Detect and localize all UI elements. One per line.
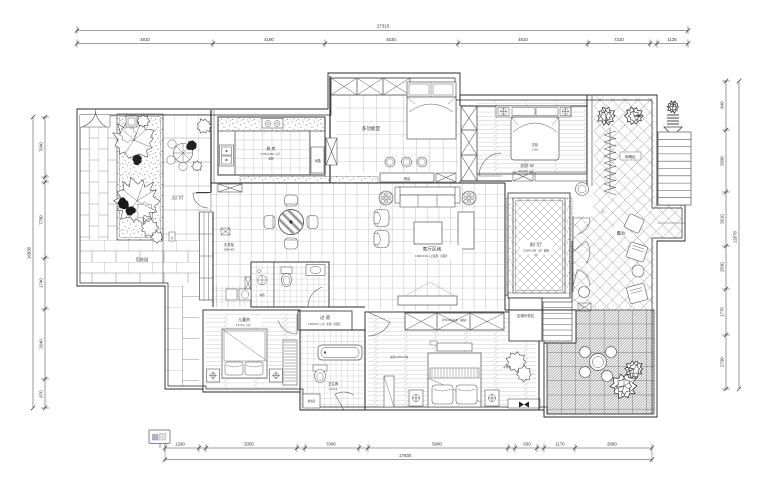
- armchair top-left: [374, 210, 389, 227]
- svg-text:2680: 2680: [607, 442, 617, 447]
- master nightstand right: [485, 390, 499, 406]
- svg-text:2.2×2.3: 2.2×2.3: [329, 388, 338, 391]
- terrace planter pot: [576, 183, 589, 196]
- garden paved path tiles: [163, 114, 211, 212]
- svg-text:930: 930: [523, 442, 531, 447]
- master bedroom wood floor: [368, 315, 536, 407]
- terrace stool round: [579, 287, 590, 298]
- svg-text:2700×600衣柜（搭配）: 2700×600衣柜（搭配）: [442, 318, 468, 322]
- svg-text:3.9M×XXG.L上投影（搭配）: 3.9M×XXG.L上投影（搭配）: [415, 254, 449, 258]
- garden chairs: [168, 140, 176, 148]
- svg-text:玄关柜: 玄关柜: [224, 242, 235, 247]
- hatch box terrace: [578, 303, 591, 311]
- entry speckle band left: [507, 198, 514, 293]
- coffee table: [414, 222, 442, 244]
- back door arc: [193, 193, 208, 208]
- leisure chairs: [580, 347, 591, 358]
- top overall dimension line 27315: [75, 24, 690, 35]
- svg-text:冰箱: 冰箱: [314, 158, 321, 163]
- ceiling fan left: [379, 191, 393, 205]
- legend stamp box: [149, 430, 170, 448]
- svg-text:露台: 露台: [617, 230, 625, 237]
- svg-text:过 道: 过 道: [320, 314, 331, 321]
- master bathroom floor tiles: [300, 330, 365, 410]
- leisure plant big: [610, 374, 637, 399]
- bedroom2 wood floor: [477, 100, 587, 174]
- children room walls: [203, 310, 300, 392]
- bedroom2 bed body: [511, 117, 559, 160]
- wall below kitchen y183: [211, 182, 505, 184]
- svg-text:空调外机位: 空调外机位: [517, 313, 535, 318]
- wall y310: [505, 309, 576, 311]
- svg-text:1200×400: 1200×400: [224, 249, 235, 252]
- front entry hall box: [508, 193, 570, 298]
- master toilet: [313, 365, 327, 371]
- big tree upper: [113, 119, 154, 160]
- wall bedroom right: [538, 312, 540, 410]
- multiroom top wardrobe band: [331, 78, 410, 95]
- dining chairs: [285, 195, 298, 206]
- svg-text:12070: 12070: [733, 230, 738, 243]
- svg-text:3.1×3.3（㎡）: 3.1×3.3（㎡）: [236, 323, 253, 327]
- wash basin guest: [306, 265, 325, 276]
- corridor label box: [298, 311, 352, 330]
- svg-text:次卧: 次卧: [532, 142, 539, 147]
- kitchen left counter column: [218, 131, 235, 175]
- terrace chair top: [624, 213, 645, 233]
- svg-text:0.0: 0.0: [534, 253, 538, 257]
- master door: [368, 312, 390, 336]
- terrace lounge chair upper: [626, 242, 648, 263]
- ceiling fan right: [462, 191, 476, 205]
- master bath door: [335, 392, 354, 410]
- drying area flowers: [598, 107, 616, 125]
- svg-text:3.7M×2.5M（㎡）: 3.7M×2.5M（㎡）: [261, 152, 282, 156]
- entry label: [520, 240, 553, 255]
- svg-text:2790: 2790: [720, 357, 725, 367]
- svg-text:吧台: 吧台: [404, 176, 411, 181]
- svg-text:4810: 4810: [140, 37, 150, 42]
- big tree lower: [114, 177, 161, 224]
- svg-text:1.6M×8.5（㎡）走廊（搭配）: 1.6M×8.5（㎡）走廊（搭配）: [308, 322, 342, 326]
- tv cabinet right wall: [458, 212, 474, 249]
- svg-text:1.5m: 1.5m: [532, 148, 539, 152]
- svg-text:1170: 1170: [555, 442, 565, 447]
- svg-text:4180: 4180: [264, 37, 274, 42]
- guest bathroom box: [251, 262, 329, 307]
- svg-text:3350: 3350: [244, 442, 254, 447]
- master plant: [506, 352, 526, 373]
- terrace-stairs wall: [571, 241, 573, 302]
- tree trunk dark blob: [133, 155, 142, 165]
- square planter pot: [126, 116, 137, 127]
- svg-text:4630: 4630: [386, 37, 396, 42]
- master bench with bow: [508, 399, 540, 408]
- outer wall envelope: [77, 73, 685, 417]
- bar counter 吧台: [380, 173, 434, 182]
- svg-text:后花园: 后花园: [136, 256, 149, 263]
- path top plant: [197, 119, 211, 133]
- svg-text:上: 上: [601, 208, 604, 213]
- garden corner curtain swag: [82, 113, 106, 127]
- right dimension chain: [720, 79, 742, 391]
- pillar left of bath: [245, 277, 251, 290]
- svg-text:17930: 17930: [399, 453, 412, 458]
- dark foliage blobs: [118, 198, 128, 209]
- kitchen floor tiles: [235, 131, 310, 175]
- svg-text:870: 870: [39, 390, 44, 398]
- planter bed dotted soil: [117, 114, 163, 240]
- AC outdoor unit box: [509, 298, 542, 341]
- svg-text:多功能室: 多功能室: [362, 125, 381, 132]
- entry hall lattice floor: [514, 199, 564, 292]
- small flower on path: [137, 115, 150, 127]
- left dimension chain: [27, 115, 50, 410]
- kitchen counter speckled band: [218, 117, 325, 131]
- entrance cabinet xuanguangui: [218, 184, 242, 192]
- svg-text:客厅区域: 客厅区域: [423, 246, 442, 253]
- garden bottom vertical brick strip: [165, 286, 199, 386]
- svg-text:16830: 16830: [27, 246, 32, 259]
- svg-text:7060: 7060: [326, 442, 336, 447]
- master nightstand left: [409, 390, 423, 406]
- svg-text:次卧-W: 次卧-W: [520, 162, 534, 169]
- small shrub lower planter: [141, 219, 159, 237]
- leisure round table: [590, 354, 607, 371]
- walkway plank strip: [200, 212, 214, 300]
- svg-text:2690: 2690: [720, 156, 725, 166]
- multi-function room floor tiles: [337, 95, 459, 172]
- svg-text:1740: 1740: [39, 278, 44, 288]
- sofa: [398, 187, 457, 195]
- stove: [262, 119, 283, 129]
- bathroom upper tiles: [211, 286, 251, 307]
- svg-text:前门厅: 前门厅: [530, 241, 543, 248]
- guest bathroom floor tiles: [251, 262, 329, 307]
- svg-text:晾晒区: 晾晒区: [625, 154, 636, 159]
- clothes drying rack: [604, 128, 616, 195]
- svg-text:27315: 27315: [377, 24, 390, 29]
- armchair bottom-left: [374, 231, 389, 248]
- master tv cabinet: [437, 343, 472, 351]
- svg-text:厨 房: 厨 房: [266, 145, 275, 151]
- bedroom2 left pillar wardrobe column: [461, 106, 477, 181]
- master bed: [428, 353, 481, 407]
- master wardrobe band: [405, 313, 504, 330]
- terrace lounge chair lower: [626, 283, 648, 304]
- drying area label: [620, 152, 641, 160]
- top segment dimension chain: [75, 37, 690, 48]
- terrace stool mid: [632, 265, 644, 277]
- guest bath door: [308, 287, 329, 307]
- svg-text:1290: 1290: [175, 442, 185, 447]
- hatch box right of counter: [436, 173, 456, 182]
- corridor walls: [251, 306, 365, 308]
- children room label: [228, 316, 261, 327]
- bathtub: [318, 345, 362, 360]
- kitchen box walls: [218, 117, 325, 175]
- children room door: [278, 314, 297, 334]
- svg-text:7040: 7040: [39, 142, 44, 152]
- svg-text:5080: 5080: [432, 442, 442, 447]
- living room label: [412, 245, 462, 259]
- svg-text:瓷砖: 瓷砖: [268, 157, 274, 161]
- lower internal stairs: [543, 302, 572, 341]
- garden round table with parasol: [174, 144, 193, 163]
- svg-text:3.0M×3.5M（㎡）瓷砖: 3.0M×3.5M（㎡）瓷砖: [523, 249, 549, 253]
- upper external stairs: [658, 132, 691, 205]
- garden lower horizontal brick paving: [80, 240, 199, 283]
- terrace lattice floor: [573, 98, 682, 310]
- svg-text:1770: 1770: [720, 307, 725, 317]
- bedroom2 door: [479, 153, 502, 176]
- north arrow: [667, 101, 678, 114]
- svg-text:4810: 4810: [518, 37, 528, 42]
- bottom segment dimension chain: [163, 442, 654, 453]
- living and dining floor tiles: [211, 183, 505, 310]
- svg-text:儿童房: 儿童房: [238, 316, 250, 322]
- bottom overall dimension line 17930: [163, 443, 654, 462]
- path lantern: [169, 232, 175, 241]
- multiroom bed: [407, 82, 456, 97]
- shower symbol: [258, 276, 267, 285]
- master bathroom walls: [300, 330, 365, 410]
- shoe cabinet: [221, 228, 230, 235]
- entry speckle band right: [565, 198, 572, 293]
- children bed: [222, 329, 267, 378]
- hatch box above entry: [513, 172, 533, 181]
- svg-text:淋浴房: 淋浴房: [308, 399, 316, 403]
- sideboard bottom: [398, 296, 457, 305]
- master left cabinet: [384, 376, 394, 407]
- toilet guest: [281, 267, 292, 274]
- svg-text:后门厅: 后门厅: [172, 194, 184, 200]
- svg-text:2640: 2640: [39, 339, 44, 349]
- terrace label: [613, 227, 630, 236]
- svg-text:主卧2.7M×4.2M: 主卧2.7M×4.2M: [390, 355, 408, 359]
- folding door to terrace: [573, 218, 590, 234]
- svg-text:7310: 7310: [614, 37, 624, 42]
- speckle band below kitchen: [240, 177, 378, 183]
- master bedroom walls: [365, 312, 539, 410]
- svg-text:淋浴: 淋浴: [259, 293, 265, 297]
- wall garden-kitchen vertical: [210, 110, 212, 192]
- svg-text:1135: 1135: [667, 37, 677, 42]
- garden plant near table: [186, 141, 196, 150]
- svg-text:2530: 2530: [720, 262, 725, 272]
- bar stools: [385, 157, 395, 167]
- washer boxes above: [226, 289, 237, 300]
- sink double bowl: [220, 145, 234, 166]
- bedroom2 walls: [461, 105, 587, 107]
- kitchen right counter column: [310, 131, 325, 175]
- shower cubicle: [303, 394, 320, 408]
- kitchen-multiroom pillar: [326, 138, 337, 165]
- leisure left wall: [543, 341, 545, 417]
- children wardrobe comb: [283, 340, 297, 385]
- svg-text:7790: 7790: [39, 215, 44, 225]
- svg-text:卫生间: 卫生间: [328, 381, 339, 386]
- garden corner swag underlay: [80, 115, 110, 127]
- living right wall: [504, 183, 506, 310]
- svg-text:2610: 2610: [720, 214, 725, 224]
- leisure terrace dense hatch tiles: [547, 310, 654, 414]
- children nightstand right: [270, 369, 283, 382]
- stair landing edge: [657, 222, 685, 224]
- garden left vertical brick paving: [80, 114, 117, 240]
- fridge: [311, 147, 324, 173]
- children nightstand left: [207, 369, 220, 382]
- children room wood floor: [206, 313, 297, 389]
- svg-text:840: 840: [720, 101, 725, 109]
- dining table: [279, 210, 304, 235]
- bedroom2 headboard band: [496, 106, 571, 117]
